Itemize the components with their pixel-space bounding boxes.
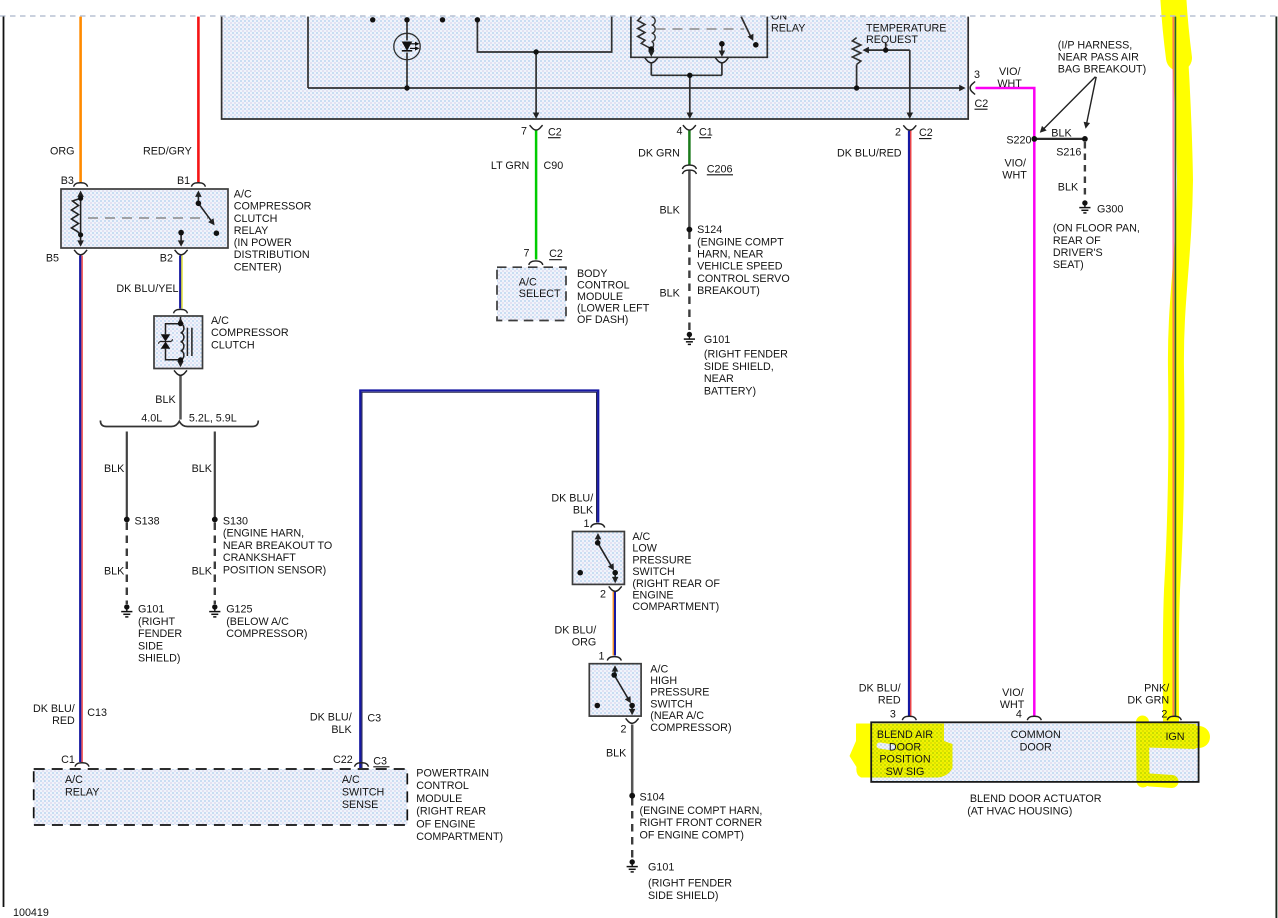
svg-text:HIGH: HIGH: [650, 675, 677, 687]
svg-text:DK GRN: DK GRN: [1127, 695, 1169, 707]
svg-text:A/C: A/C: [65, 774, 83, 786]
svg-text:BLEND AIR: BLEND AIR: [877, 729, 933, 741]
svg-text:B3: B3: [61, 175, 74, 187]
svg-text:SHIELD): SHIELD): [138, 653, 180, 665]
svg-text:2: 2: [1161, 709, 1167, 721]
svg-text:5.2L, 5.9L: 5.2L, 5.9L: [189, 413, 237, 425]
svg-text:LOW: LOW: [632, 543, 657, 555]
svg-text:BLK: BLK: [104, 463, 125, 475]
svg-text:BLEND DOOR ACTUATOR: BLEND DOOR ACTUATOR: [970, 793, 1102, 805]
svg-text:RED: RED: [52, 715, 75, 727]
svg-text:VIO/: VIO/: [999, 66, 1021, 78]
svg-text:CONTROL: CONTROL: [577, 280, 630, 292]
svg-text:DOOR: DOOR: [1020, 741, 1052, 753]
svg-text:BLK: BLK: [1058, 182, 1079, 194]
svg-text:BLK: BLK: [192, 463, 213, 475]
svg-text:(RIGHT FENDER: (RIGHT FENDER: [648, 878, 732, 890]
svg-text:DK BLU/: DK BLU/: [310, 712, 352, 724]
svg-text:BLK: BLK: [660, 204, 681, 216]
svg-text:BLK: BLK: [573, 505, 594, 517]
svg-text:BLK: BLK: [192, 566, 213, 578]
svg-text:BLK: BLK: [1051, 128, 1072, 140]
svg-text:2: 2: [895, 127, 901, 139]
svg-text:1: 1: [599, 650, 605, 662]
svg-text:ORG: ORG: [50, 146, 75, 158]
svg-text:DK BLU/RED: DK BLU/RED: [837, 148, 902, 160]
svg-text:C1: C1: [61, 754, 75, 766]
svg-text:C2: C2: [548, 126, 562, 138]
svg-text:CONTROL SERVO: CONTROL SERVO: [697, 273, 790, 285]
svg-text:(BELOW A/C: (BELOW A/C: [226, 616, 289, 628]
svg-text:RELAY: RELAY: [65, 787, 99, 799]
svg-text:G101: G101: [138, 604, 164, 616]
svg-text:(LOWER LEFT: (LOWER LEFT: [577, 302, 650, 314]
svg-text:(I/P HARNESS,: (I/P HARNESS,: [1058, 39, 1132, 51]
svg-text:G101: G101: [704, 334, 730, 346]
svg-text:3: 3: [974, 69, 980, 81]
svg-text:DOOR: DOOR: [889, 741, 921, 753]
svg-text:A/C: A/C: [650, 663, 668, 675]
svg-text:BLK: BLK: [155, 394, 176, 406]
svg-text:(ENGINE COMPT: (ENGINE COMPT: [697, 237, 784, 249]
svg-text:VIO/: VIO/: [1005, 157, 1027, 169]
svg-text:REQUEST: REQUEST: [866, 34, 918, 46]
svg-text:(RIGHT FENDER: (RIGHT FENDER: [704, 349, 788, 361]
svg-text:7: 7: [521, 125, 527, 137]
svg-text:POWERTRAIN: POWERTRAIN: [416, 768, 489, 780]
svg-text:C3: C3: [367, 713, 381, 725]
svg-text:ORG: ORG: [572, 637, 597, 649]
svg-text:COMPRESSOR: COMPRESSOR: [234, 201, 312, 213]
svg-text:B5: B5: [46, 252, 59, 264]
svg-text:C206: C206: [707, 163, 733, 175]
svg-text:BAG BREAKOUT): BAG BREAKOUT): [1058, 64, 1146, 76]
svg-text:C2: C2: [975, 98, 989, 110]
svg-text:ENGINE: ENGINE: [632, 590, 673, 602]
svg-text:NEAR BREAKOUT TO: NEAR BREAKOUT TO: [223, 540, 332, 552]
svg-text:NEAR: NEAR: [704, 373, 734, 385]
svg-text:A/C: A/C: [519, 276, 537, 288]
svg-text:SWITCH: SWITCH: [632, 566, 674, 578]
svg-text:C2: C2: [549, 248, 563, 260]
svg-text:CLUTCH: CLUTCH: [234, 213, 278, 225]
svg-text:4: 4: [1016, 709, 1022, 721]
svg-text:C2: C2: [919, 127, 933, 139]
svg-text:POSITION SENSOR): POSITION SENSOR): [223, 564, 326, 576]
svg-text:DK BLU/: DK BLU/: [551, 492, 593, 504]
svg-text:SW SIG: SW SIG: [886, 766, 925, 778]
svg-text:S220: S220: [1006, 134, 1031, 146]
svg-text:DK GRN: DK GRN: [638, 147, 680, 159]
svg-text:OF ENGINE COMPT): OF ENGINE COMPT): [640, 829, 745, 841]
svg-text:A/C: A/C: [632, 531, 650, 543]
svg-text:B1: B1: [177, 175, 190, 187]
svg-text:CLUTCH: CLUTCH: [211, 339, 255, 351]
svg-text:COMPRESSOR): COMPRESSOR): [650, 722, 731, 734]
svg-text:SIDE SHIELD,: SIDE SHIELD,: [704, 361, 774, 373]
svg-text:PRESSURE: PRESSURE: [632, 554, 691, 566]
svg-text:BLK: BLK: [331, 724, 352, 736]
svg-text:WHT: WHT: [997, 78, 1022, 90]
svg-text:DK BLU/YEL: DK BLU/YEL: [116, 283, 178, 295]
svg-text:G125: G125: [226, 604, 252, 616]
svg-text:SENSE: SENSE: [342, 799, 378, 811]
svg-text:RED/GRY: RED/GRY: [143, 146, 192, 158]
svg-text:VEHICLE SPEED: VEHICLE SPEED: [697, 261, 783, 273]
svg-text:(RIGHT REAR: (RIGHT REAR: [416, 806, 486, 818]
svg-text:(IN POWER: (IN POWER: [234, 237, 292, 249]
svg-text:(RIGHT: (RIGHT: [138, 616, 175, 628]
svg-text:CONTROL: CONTROL: [416, 780, 469, 792]
svg-text:SELECT: SELECT: [519, 288, 561, 300]
svg-text:POSITION: POSITION: [879, 753, 930, 765]
svg-text:C3: C3: [373, 755, 387, 767]
svg-text:100419: 100419: [13, 907, 49, 918]
svg-text:A/C: A/C: [342, 774, 360, 786]
svg-text:C13: C13: [87, 707, 107, 719]
svg-text:OF DASH): OF DASH): [577, 314, 628, 326]
svg-text:BLK: BLK: [104, 566, 125, 578]
svg-text:BLK: BLK: [660, 288, 681, 300]
svg-text:PNK/: PNK/: [1144, 682, 1169, 694]
svg-text:COMPRESSOR): COMPRESSOR): [226, 628, 307, 640]
svg-text:SIDE: SIDE: [138, 640, 163, 652]
svg-text:OF ENGINE: OF ENGINE: [416, 818, 475, 830]
svg-text:CRANKSHAFT: CRANKSHAFT: [223, 552, 296, 564]
svg-text:G101: G101: [648, 861, 674, 873]
svg-text:BREAKOUT): BREAKOUT): [697, 285, 760, 297]
svg-text:FENDER: FENDER: [138, 628, 182, 640]
svg-text:3: 3: [890, 709, 896, 721]
svg-text:SWITCH: SWITCH: [650, 698, 692, 710]
svg-text:REAR OF: REAR OF: [1053, 235, 1101, 247]
svg-text:(RIGHT REAR OF: (RIGHT REAR OF: [632, 578, 720, 590]
svg-text:COMPARTMENT): COMPARTMENT): [416, 831, 503, 843]
svg-text:MODULE: MODULE: [416, 793, 462, 805]
svg-text:S124: S124: [697, 224, 722, 236]
svg-text:C1: C1: [699, 126, 713, 138]
svg-text:S104: S104: [640, 791, 665, 803]
svg-text:1: 1: [584, 518, 590, 530]
svg-text:S216: S216: [1056, 147, 1081, 159]
svg-text:4: 4: [677, 125, 683, 137]
svg-text:IGN: IGN: [1165, 731, 1184, 743]
svg-text:RELAY: RELAY: [771, 23, 805, 35]
svg-text:C22: C22: [333, 754, 353, 766]
svg-text:(ENGINE HARN,: (ENGINE HARN,: [223, 528, 304, 540]
svg-text:C90: C90: [544, 160, 564, 172]
svg-text:B2: B2: [160, 252, 173, 264]
svg-text:A/C: A/C: [211, 315, 229, 327]
svg-text:VIO/: VIO/: [1002, 687, 1024, 699]
svg-text:PRESSURE: PRESSURE: [650, 687, 709, 699]
svg-text:MODULE: MODULE: [577, 291, 623, 303]
svg-text:SEAT): SEAT): [1053, 259, 1084, 271]
svg-text:4.0L: 4.0L: [141, 413, 162, 425]
svg-text:DK BLU/: DK BLU/: [33, 703, 75, 715]
svg-text:SWITCH: SWITCH: [342, 787, 384, 799]
svg-text:DK BLU/: DK BLU/: [859, 682, 901, 694]
svg-text:7: 7: [524, 247, 530, 259]
svg-text:S138: S138: [135, 515, 160, 527]
svg-text:(NEAR A/C: (NEAR A/C: [650, 710, 704, 722]
svg-text:RED: RED: [878, 695, 901, 707]
svg-text:RIGHT FRONT CORNER: RIGHT FRONT CORNER: [640, 817, 763, 829]
svg-text:BODY: BODY: [577, 268, 607, 280]
svg-text:DISTRIBUTION: DISTRIBUTION: [234, 249, 310, 261]
svg-text:G300: G300: [1097, 204, 1123, 216]
svg-text:TEMPERATURE: TEMPERATURE: [866, 23, 946, 35]
svg-text:2: 2: [621, 724, 627, 736]
svg-text:CENTER): CENTER): [234, 261, 282, 273]
svg-text:A/C: A/C: [234, 189, 252, 201]
svg-text:COMMON: COMMON: [1011, 729, 1061, 741]
svg-text:(ON FLOOR PAN,: (ON FLOOR PAN,: [1053, 223, 1140, 235]
svg-text:DRIVER'S: DRIVER'S: [1053, 247, 1103, 259]
svg-text:NEAR PASS AIR: NEAR PASS AIR: [1058, 52, 1139, 64]
svg-text:LT GRN: LT GRN: [491, 160, 529, 172]
svg-text:COMPARTMENT): COMPARTMENT): [632, 601, 719, 613]
svg-text:SIDE SHIELD): SIDE SHIELD): [648, 890, 719, 902]
svg-text:RELAY: RELAY: [234, 225, 268, 237]
svg-text:BATTERY): BATTERY): [704, 385, 756, 397]
svg-text:COMPRESSOR: COMPRESSOR: [211, 327, 289, 339]
svg-text:ON: ON: [771, 11, 787, 23]
svg-text:BLK: BLK: [606, 747, 627, 759]
svg-text:DK BLU/: DK BLU/: [554, 625, 596, 637]
svg-text:HARN, NEAR: HARN, NEAR: [697, 249, 764, 261]
svg-text:(AT HVAC HOUSING): (AT HVAC HOUSING): [967, 805, 1072, 817]
svg-text:S130: S130: [223, 515, 248, 527]
svg-text:2: 2: [600, 588, 606, 600]
svg-text:(ENGINE COMPT HARN,: (ENGINE COMPT HARN,: [640, 805, 763, 817]
svg-text:WHT: WHT: [1002, 170, 1027, 182]
